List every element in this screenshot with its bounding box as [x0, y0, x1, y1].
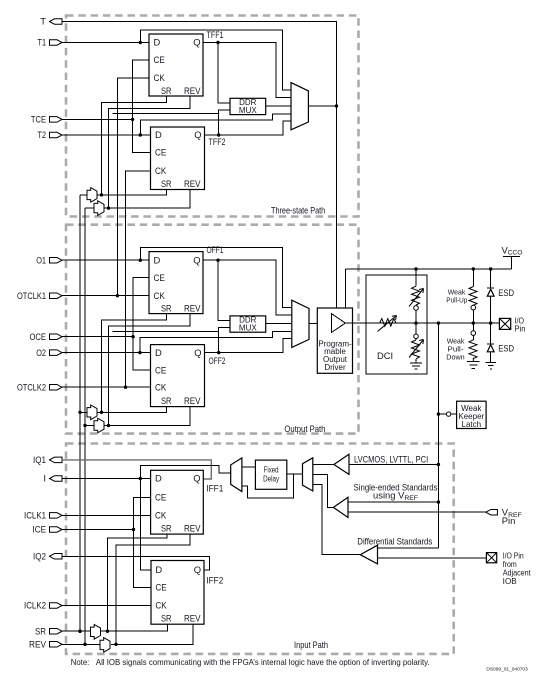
- pad column down to input buffers: [437, 323, 440, 548]
- svg-text:ICLK2: ICLK2: [24, 600, 46, 611]
- svg-text:Output Path: Output Path: [284, 423, 325, 434]
- port ICLK2: [24, 600, 62, 611]
- wire OFF2 Q branch to DDR mux 2: [113, 328, 230, 353]
- flip-flop OFF2: [151, 345, 226, 407]
- svg-text:REV: REV: [184, 523, 201, 534]
- wire T2 bypass to three-state mux: [140, 114, 291, 135]
- svg-text:D: D: [154, 254, 161, 265]
- Output Path container box: [66, 225, 359, 434]
- svg-text:SR: SR: [35, 625, 46, 636]
- svg-text:Q: Q: [193, 37, 200, 48]
- svg-text:T2: T2: [38, 129, 47, 140]
- wire input standard mux output to fixed delay: [287, 473, 303, 475]
- wire OTCLK2 column to TFF2 CK: [126, 171, 151, 387]
- wire O1 input to OFF1 D: [62, 259, 149, 262]
- ground symbol below pull-down: [467, 362, 480, 369]
- svg-text:CE: CE: [154, 54, 165, 65]
- svg-text:REV: REV: [184, 303, 201, 314]
- port OTCLK2: [17, 381, 62, 392]
- svg-text:O1: O1: [36, 254, 46, 265]
- svg-text:TCE: TCE: [31, 114, 46, 125]
- pad net horizontal wire: [345, 321, 499, 324]
- wire REV polarity mux output to TFF2 REV: [85, 190, 190, 209]
- fixed delay block: [255, 460, 286, 489]
- svg-text:Three-state Path: Three-state Path: [271, 205, 325, 216]
- Three-state Path container box: [66, 16, 359, 217]
- weak keeper latch: [438, 401, 486, 429]
- svg-text:TFF1: TFF1: [207, 29, 224, 40]
- wire DDR mux 2 output to output mux: [266, 322, 292, 324]
- svg-text:Pull-Up: Pull-Up: [446, 296, 467, 305]
- svg-text:REV: REV: [184, 85, 201, 96]
- port SR: [35, 625, 62, 636]
- svg-text:OTCLK2: OTCLK2: [17, 381, 46, 392]
- wire TFF1 Q branch to DDR mux: [218, 43, 230, 104]
- port T: [40, 16, 62, 27]
- port I: [43, 473, 62, 484]
- SR polarity mux (output path): [87, 405, 97, 420]
- wire O1 bypass to output mux: [140, 248, 291, 308]
- svg-text:CE: CE: [155, 582, 166, 593]
- wire OFF1 Q branch to DDR mux 2: [218, 260, 230, 320]
- wire SR polarity mux 3 output to IFF2 SR: [101, 624, 168, 631]
- svg-text:TFF2: TFF2: [209, 136, 226, 147]
- wire input mux output to D column: [140, 465, 230, 570]
- port O1: [36, 254, 62, 265]
- svg-text:REV: REV: [29, 639, 47, 650]
- VCCO power rail: [345, 267, 511, 270]
- wire net T (bypass to output driver three-state): [62, 22, 338, 318]
- svg-text:D: D: [154, 37, 161, 48]
- ESD diode to ground: [487, 323, 514, 362]
- wire T1 input to TFF1 D: [62, 41, 149, 44]
- wire OFF2 Q to output mux: [205, 339, 292, 355]
- svg-text:D: D: [155, 347, 162, 358]
- svg-text:ESD: ESD: [498, 287, 514, 298]
- svg-text:DS099_01_040703: DS099_01_040703: [486, 667, 528, 672]
- port ICLK1: [24, 510, 62, 521]
- flip-flop IFF2: [151, 561, 223, 625]
- svg-text:CK: CK: [155, 600, 167, 611]
- programmable output driver U1: [317, 308, 352, 373]
- svg-text:SR: SR: [161, 395, 172, 406]
- wire ICE column to CE pins: [134, 497, 152, 587]
- buffer differential standards: [313, 484, 487, 564]
- REV polarity mux (output path): [94, 418, 104, 433]
- wire ICE input: [62, 528, 135, 531]
- weak pull-up resistor: [446, 269, 477, 323]
- svg-text:D: D: [155, 129, 162, 140]
- wire OFF1 SR to polarity mux column: [100, 314, 167, 414]
- svg-text:CK: CK: [155, 165, 167, 176]
- DCI series adjustable resistor: [378, 316, 397, 332]
- svg-text:CE: CE: [154, 272, 165, 283]
- note text: [71, 657, 430, 667]
- port T1: [38, 37, 63, 48]
- wire OFF1 Q to output mux: [203, 259, 292, 316]
- wire TFF2 Q to three-state mux: [205, 121, 292, 137]
- I/O pin from adjacent IOB pad symbol: [486, 552, 531, 587]
- flip-flop TFF2: [151, 127, 226, 190]
- svg-text:T1: T1: [38, 37, 47, 48]
- document tag DS099_01_040703: [486, 667, 528, 672]
- ground symbol inside DCI: [410, 363, 422, 369]
- wire fixed delay output to input delay mux: [242, 466, 256, 468]
- wire REV polarity mux 2 output to OFF2 REV: [85, 407, 190, 426]
- svg-text:Q: Q: [193, 473, 200, 484]
- wire TCE column to CE pins: [133, 60, 151, 153]
- DCI block: [366, 275, 427, 374]
- buffer single-ended standards using VREF: [313, 475, 486, 518]
- svg-text:SR: SR: [161, 613, 172, 624]
- Input Path container box: [66, 444, 454, 654]
- wire three-state mux output: [308, 105, 336, 107]
- wire SR input line: [62, 630, 91, 633]
- port O2: [36, 347, 62, 358]
- port OCE: [30, 331, 63, 342]
- svg-text:IFF1: IFF1: [206, 483, 223, 494]
- svg-text:I: I: [43, 473, 46, 484]
- wire T2 input to TFF2 D: [62, 133, 151, 136]
- svg-text:OFF1: OFF1: [207, 244, 224, 255]
- wire TCE input: [62, 118, 134, 121]
- svg-text:D: D: [155, 564, 162, 575]
- flip-flop IFF1: [151, 470, 224, 534]
- wire TFF1 REV to polarity mux column: [107, 96, 190, 210]
- svg-text:Q: Q: [193, 254, 200, 265]
- svg-text:REV: REV: [184, 613, 201, 624]
- input delay mux: [231, 458, 242, 492]
- wire SR polarity mux output to TFF2 SR: [80, 190, 167, 195]
- svg-text:Q: Q: [194, 347, 201, 358]
- weak pull-down resistor: [446, 323, 477, 362]
- svg-text:CK: CK: [154, 290, 166, 301]
- REV polarity mux (three-state path): [94, 201, 104, 216]
- wire delay bypass: [242, 474, 294, 498]
- svg-text:CK: CK: [155, 510, 167, 521]
- svg-text:Driver: Driver: [324, 363, 346, 372]
- svg-text:SR: SR: [161, 85, 172, 96]
- wire OTCLK1 input to OFF1 CK: [62, 294, 149, 297]
- global SR column: [78, 195, 81, 633]
- VREF pin port: [486, 506, 522, 526]
- svg-text:ICLK1: ICLK1: [24, 510, 46, 521]
- svg-text:OFF2: OFF2: [209, 355, 226, 366]
- wire IFF1 REV to polarity column: [114, 534, 190, 646]
- svg-text:Delay: Delay: [263, 474, 279, 483]
- wire REV input line: [62, 643, 100, 646]
- port OTCLK1: [17, 290, 62, 301]
- flip-flop TFF1: [149, 29, 224, 96]
- wire IFF1 SR to polarity column: [106, 534, 167, 633]
- svg-text:SR: SR: [161, 178, 172, 189]
- DCI lower adjustable resistor to ground: [409, 323, 424, 363]
- global REV column: [83, 208, 86, 646]
- svg-text:Differential Standards: Differential Standards: [357, 536, 432, 547]
- wire VCCO rail to driver box: [344, 269, 346, 308]
- three-state output mux: [291, 83, 308, 130]
- svg-text:DCI: DCI: [377, 350, 393, 361]
- svg-text:T: T: [40, 16, 46, 27]
- svg-text:OTCLK1: OTCLK1: [17, 290, 46, 301]
- svg-text:LVCMOS, LVTTL, PCI: LVCMOS, LVTTL, PCI: [354, 453, 428, 464]
- svg-text:D: D: [155, 473, 162, 484]
- svg-text:REV: REV: [184, 395, 201, 406]
- VCCO supply symbol: [502, 244, 523, 269]
- svg-text:REV: REV: [184, 178, 201, 189]
- input standard select mux: [303, 458, 313, 491]
- svg-text:Note: All IOB signals commun: Note: All IOB signals communicating with…: [71, 657, 430, 667]
- svg-text:Pin: Pin: [502, 515, 516, 526]
- svg-text:O2: O2: [36, 347, 46, 358]
- wire O2 input to OFF2 D: [62, 351, 151, 354]
- svg-text:SR: SR: [161, 523, 172, 534]
- flip-flop OFF1: [149, 244, 224, 313]
- port REV: [29, 639, 62, 650]
- SR polarity mux (three-state path): [87, 188, 97, 203]
- SR polarity mux (input path): [91, 625, 101, 640]
- buffer LVCMOS LVTTL PCI: [313, 453, 439, 474]
- DDR mux (three-state path): [230, 98, 266, 115]
- wire DDR mux output to three-state mux: [266, 105, 291, 107]
- svg-text:Fixed: Fixed: [264, 465, 279, 474]
- wire TFF1 Q to three-state mux: [203, 41, 291, 98]
- ground symbol below ESD diode: [486, 362, 496, 368]
- port T2: [38, 129, 63, 140]
- svg-text:Input Path: Input Path: [294, 639, 328, 650]
- port TCE: [31, 114, 62, 125]
- wire IQ1 from IFF1 Q: [62, 460, 211, 479]
- svg-text:IFF2: IFF2: [206, 575, 223, 586]
- wire REV polarity mux 3 output to IFF2 REV: [111, 624, 193, 644]
- wire IQ2 from IFF2 Q: [62, 556, 210, 570]
- wire OCE column to CE pins: [133, 278, 150, 371]
- svg-text:Down: Down: [446, 353, 464, 362]
- output path mux: [292, 300, 309, 347]
- svg-text:Q: Q: [194, 129, 201, 140]
- wire OTCLK1 column to TFF1 CK: [117, 78, 149, 296]
- I/O pin pad symbol: [499, 317, 525, 334]
- DDR mux (output path): [230, 316, 266, 333]
- port IQ1: [33, 454, 62, 465]
- wire O2 bypass to output mux: [140, 332, 292, 353]
- REV polarity mux (input path): [100, 638, 110, 653]
- wire OCE input: [62, 335, 135, 338]
- wire I input to IFF1 D: [62, 477, 151, 480]
- svg-text:OCE: OCE: [30, 331, 47, 342]
- svg-text:IOB: IOB: [503, 577, 517, 586]
- svg-text:SR: SR: [161, 303, 172, 314]
- wire output mux to programmable output driver: [309, 322, 332, 324]
- svg-text:Latch: Latch: [462, 420, 482, 429]
- svg-text:ICE: ICE: [33, 524, 47, 535]
- wire TFF1 SR to polarity mux column: [100, 96, 167, 197]
- wire T1 bypass to three-state mux: [140, 30, 291, 90]
- DCI upper adjustable resistor to VCCO: [409, 269, 424, 323]
- svg-text:CK: CK: [154, 72, 166, 83]
- svg-text:IQ2: IQ2: [33, 551, 46, 562]
- svg-text:MUX: MUX: [239, 106, 257, 115]
- ESD diode to VCCO: [487, 269, 514, 323]
- wire ICLK1 input to IFF1 CK: [62, 514, 151, 516]
- svg-text:CE: CE: [155, 364, 166, 375]
- wire OTCLK2 input to OFF2 CK: [62, 386, 151, 389]
- svg-text:IQ1: IQ1: [33, 454, 46, 465]
- svg-text:MUX: MUX: [239, 324, 257, 333]
- svg-text:Q: Q: [194, 564, 201, 575]
- wire ICLK2 input to IFF2 CK: [62, 605, 151, 607]
- svg-text:CK: CK: [155, 381, 167, 392]
- port ICE: [33, 524, 63, 535]
- svg-text:CE: CE: [155, 147, 166, 158]
- svg-text:ESD: ESD: [498, 342, 514, 353]
- wire SR polarity mux 2 output to OFF2 SR: [80, 407, 167, 413]
- svg-text:CE: CE: [155, 492, 166, 503]
- wire TFF2 Q branch to DDR mux: [113, 110, 230, 135]
- wire OFF1 REV to polarity mux column: [107, 314, 190, 428]
- port IQ2: [33, 551, 62, 562]
- svg-text:Pin: Pin: [515, 324, 526, 333]
